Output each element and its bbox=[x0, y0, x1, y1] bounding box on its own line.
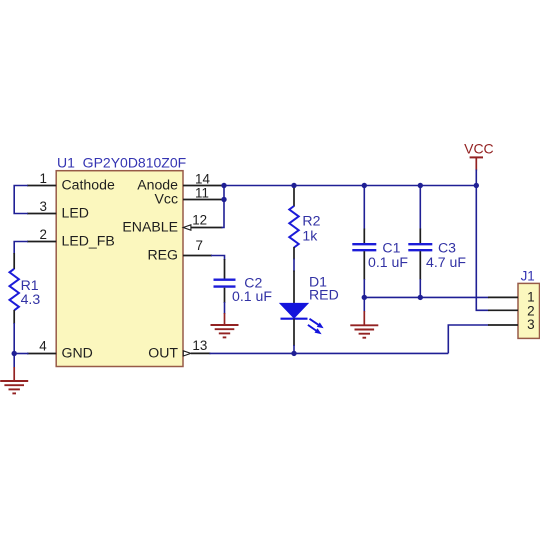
D1 bottom pin stub (cathode) bbox=[293, 319, 295, 346]
LED D1 emission arrow 2 bbox=[308, 325, 322, 334]
R2 label bbox=[302, 213, 320, 229]
capacitor C1 plates bbox=[352, 244, 376, 250]
wire C1 node down to ground symbol bbox=[363, 297, 365, 312]
svg-text:0.1 uF: 0.1 uF bbox=[368, 254, 408, 270]
U1 pin 12 stub bbox=[191, 227, 223, 229]
capacitor C3 plates bbox=[408, 244, 432, 250]
wire VCC top rail bbox=[224, 185, 476, 187]
svg-text:4: 4 bbox=[39, 339, 47, 354]
VCC power symbol bbox=[470, 157, 483, 170]
J1 pin number 2 bbox=[527, 304, 535, 319]
wire pin1-to-pin3 loop (Cathode to LED) bbox=[14, 186, 28, 214]
U1 pin name GND bbox=[62, 345, 93, 361]
D1 top pin stub (anode) bbox=[293, 271, 295, 304]
svg-text:LED_FB: LED_FB bbox=[62, 233, 115, 249]
svg-text:R2: R2 bbox=[302, 213, 320, 229]
wire ENABLE riser from rail down to pin 12 bbox=[222, 186, 225, 228]
svg-text:REG: REG bbox=[147, 247, 178, 263]
resistor R1 zigzag bbox=[10, 269, 19, 311]
C2 bottom pin stub bbox=[224, 288, 226, 303]
J1 pin number 1 bbox=[527, 290, 535, 305]
wire rail to C3 bbox=[419, 186, 421, 230]
svg-text:4.3: 4.3 bbox=[21, 291, 41, 307]
J1 pin number 3 bbox=[527, 317, 535, 332]
connector J1 body bbox=[518, 283, 540, 338]
R1 top pin stub bbox=[13, 253, 15, 269]
U1 pin name Vcc bbox=[155, 191, 179, 207]
svg-text:0.1 uF: 0.1 uF bbox=[232, 288, 272, 304]
C3 bottom pin stub bbox=[419, 251, 421, 280]
junction dot ground rail at C3 bbox=[418, 295, 423, 300]
ground symbol below C1 bbox=[350, 311, 378, 338]
svg-text:RED: RED bbox=[309, 287, 339, 303]
svg-text:LED: LED bbox=[62, 205, 89, 221]
svg-text:U1 GP2Y0D810Z0F: U1 GP2Y0D810Z0F bbox=[57, 155, 186, 171]
U1 pin number 1 bbox=[40, 171, 47, 186]
LED D1 triangle bbox=[280, 303, 308, 318]
U1 pin 13 stub bbox=[191, 352, 211, 354]
C3 value 4.7 uF bbox=[426, 254, 466, 270]
J1 pin 3 stub bbox=[488, 324, 518, 326]
wire GND node down to ground symbol bbox=[13, 354, 15, 368]
U1 pin name LED bbox=[62, 205, 89, 221]
wire ground rail C1/C3 to J1 pin 1 bbox=[364, 296, 488, 298]
J1 pin 2 stub bbox=[488, 309, 518, 311]
C2 label bbox=[244, 275, 262, 291]
U1 pin number 14 bbox=[195, 172, 210, 187]
U1 pin name LED_FB bbox=[62, 233, 115, 249]
R1 value 4.3 bbox=[21, 291, 41, 307]
junction dot D1/OUT net bbox=[291, 351, 296, 356]
svg-text:Vcc: Vcc bbox=[155, 191, 179, 207]
R1 bottom pin stub bbox=[13, 310, 15, 324]
U1 pin number 12 bbox=[192, 213, 207, 228]
U1 pin 11 stub (Vcc) bbox=[183, 199, 224, 201]
U1 pin number 3 bbox=[40, 199, 47, 214]
C1 label bbox=[382, 239, 400, 255]
R2 top pin stub bbox=[293, 188, 295, 207]
U1 pin 13 output arrow (OUT) bbox=[183, 351, 191, 356]
ground symbol below C2 bbox=[211, 313, 239, 337]
C2 value 0.1 uF bbox=[232, 288, 272, 304]
LED D1 emission arrow 1 bbox=[310, 319, 324, 328]
wire C1 to ground rail bbox=[363, 279, 365, 297]
C3 label bbox=[438, 239, 456, 255]
wire OUT net from pin 13 to corner bbox=[210, 352, 449, 354]
svg-text:Cathode: Cathode bbox=[62, 177, 115, 193]
wire OUT net up and over to J1 pin 3 bbox=[448, 325, 488, 353]
U1 pin name OUT bbox=[148, 345, 178, 361]
U1 reference and value label "U1 GP2Y0D810Z0F" bbox=[57, 155, 186, 171]
U1 pin number 7 bbox=[196, 238, 203, 253]
U1 pin 4 stub (GND) bbox=[27, 353, 56, 355]
wire D1 cathode to OUT net bbox=[293, 345, 295, 353]
svg-text:4.7 uF: 4.7 uF bbox=[426, 254, 466, 270]
U1 pin name Cathode bbox=[62, 177, 115, 193]
junction dot ground rail at C1 bbox=[362, 295, 367, 300]
R1 label bbox=[21, 277, 39, 293]
wire C3 to ground rail bbox=[419, 279, 421, 297]
wire R1 to GND node bbox=[13, 323, 15, 354]
C2 top pin stub bbox=[224, 259, 226, 279]
junction dot pin11 at riser bbox=[221, 197, 226, 202]
IC body U1 bbox=[56, 171, 183, 367]
wire GND node to pin 4 bbox=[14, 353, 28, 355]
capacitor C2 plates bbox=[214, 280, 236, 287]
C1 value 0.1 uF bbox=[368, 254, 408, 270]
svg-text:12: 12 bbox=[192, 213, 207, 228]
C1 bottom pin stub bbox=[363, 251, 365, 280]
svg-text:2: 2 bbox=[40, 227, 47, 242]
U1 pin 7 stub (REG) bbox=[183, 255, 212, 257]
svg-text:J1: J1 bbox=[521, 268, 535, 283]
U1 pin number 11 bbox=[195, 186, 209, 201]
R2 value 1k bbox=[302, 227, 318, 243]
junction dot rail at VCC bbox=[474, 183, 479, 188]
svg-text:3: 3 bbox=[40, 199, 47, 214]
wire C2 to ground bbox=[224, 302, 226, 314]
junction dot rail/pin14 at riser bbox=[221, 183, 226, 188]
U1 pin 2 stub (LED_FB) bbox=[27, 241, 56, 243]
U1 pin name Anode bbox=[137, 177, 178, 193]
wire R2 to D1 bbox=[293, 259, 295, 272]
U1 pin 14 stub (Anode) bbox=[183, 185, 224, 187]
svg-text:14: 14 bbox=[195, 172, 210, 187]
svg-text:1k: 1k bbox=[302, 227, 318, 243]
svg-text:3: 3 bbox=[527, 317, 535, 332]
LED D1 cathode bar bbox=[281, 318, 308, 320]
J1 reference label bbox=[521, 268, 535, 283]
U1 pin 12 input arrow (ENABLE) bbox=[183, 225, 191, 230]
J1 pin 1 stub bbox=[488, 296, 518, 298]
U1 pin name ENABLE bbox=[122, 219, 178, 235]
wire pin2 (LED_FB) down to R1 bbox=[14, 242, 28, 255]
junction dot rail at C3 bbox=[418, 183, 423, 188]
svg-text:11: 11 bbox=[195, 186, 209, 201]
U1 pin 3 stub (LED) bbox=[27, 213, 56, 215]
svg-text:GND: GND bbox=[62, 345, 93, 361]
C1 top pin stub bbox=[363, 229, 365, 244]
junction dot rail at C1 bbox=[362, 183, 367, 188]
junction dot at pin4/R1/ground node bbox=[12, 351, 17, 356]
resistor R2 zigzag bbox=[289, 206, 298, 248]
svg-text:13: 13 bbox=[192, 338, 207, 353]
U1 pin number 13 bbox=[192, 338, 207, 353]
svg-text:OUT: OUT bbox=[148, 345, 178, 361]
svg-text:1: 1 bbox=[527, 290, 535, 305]
U1 pin name REG bbox=[147, 247, 178, 263]
D1 value RED bbox=[309, 287, 339, 303]
D1 label bbox=[309, 273, 327, 289]
wire REG pin7 to C2 bbox=[211, 256, 225, 261]
U1 pin 1 stub (Cathode) bbox=[27, 185, 56, 187]
junction dot rail at R2 bbox=[291, 183, 296, 188]
VCC net label bbox=[464, 141, 494, 157]
svg-text:VCC: VCC bbox=[464, 141, 494, 157]
ground symbol at pin 4 bbox=[0, 367, 28, 393]
U1 pin number 4 bbox=[39, 339, 47, 354]
U1 pin number 2 bbox=[40, 227, 47, 242]
svg-text:ENABLE: ENABLE bbox=[122, 219, 178, 235]
R2 bottom pin stub bbox=[293, 247, 295, 260]
wire rail to C1 bbox=[363, 186, 365, 230]
wire VCC symbol to rail bbox=[475, 170, 477, 186]
svg-text:7: 7 bbox=[196, 238, 203, 253]
C3 top pin stub bbox=[419, 229, 421, 244]
wire VCC riser down to J1 pin 2 bbox=[476, 186, 488, 311]
svg-text:1: 1 bbox=[40, 171, 47, 186]
